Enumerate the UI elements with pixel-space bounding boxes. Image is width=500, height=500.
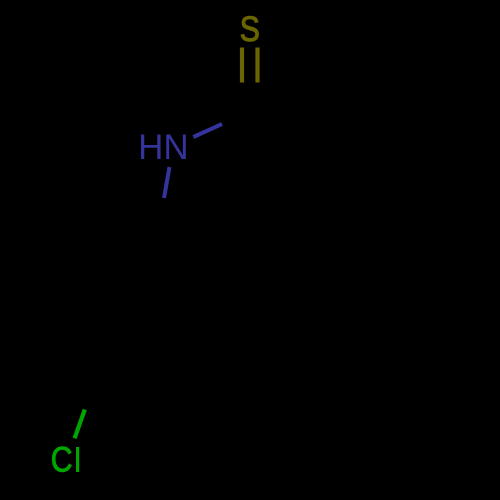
bond Cl-C (chlorine-colored half) <box>75 410 85 439</box>
bond N-C1 (nitrogen-colored half, toward thione carbon) <box>193 124 222 137</box>
svg-text:S: S <box>240 10 260 49</box>
double bond C1=S, sulfur-colored half, left line <box>240 48 244 83</box>
bond N-C7 (nitrogen-colored half, downward) <box>164 167 170 198</box>
svg-text:C: C <box>51 441 73 480</box>
atom Cl (chlorine label, letter l drawn as bar) <box>76 447 79 472</box>
svg-text:HN: HN <box>138 128 189 167</box>
double bond C1=S, sulfur-colored half, right line <box>255 48 259 83</box>
